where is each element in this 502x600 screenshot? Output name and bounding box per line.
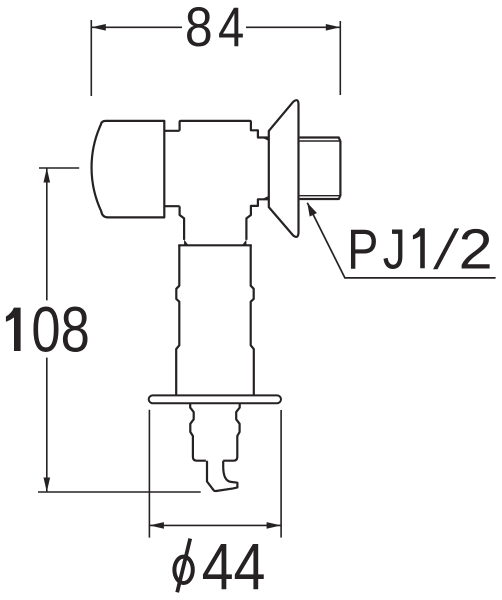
svg-text:4: 4 — [218, 0, 244, 58]
svg-text:P: P — [347, 218, 378, 281]
svg-text:2: 2 — [459, 216, 493, 280]
svg-text:08: 08 — [31, 295, 89, 366]
svg-text:8: 8 — [185, 0, 213, 59]
svg-text:44: 44 — [202, 531, 266, 600]
svg-text:J: J — [383, 217, 406, 281]
